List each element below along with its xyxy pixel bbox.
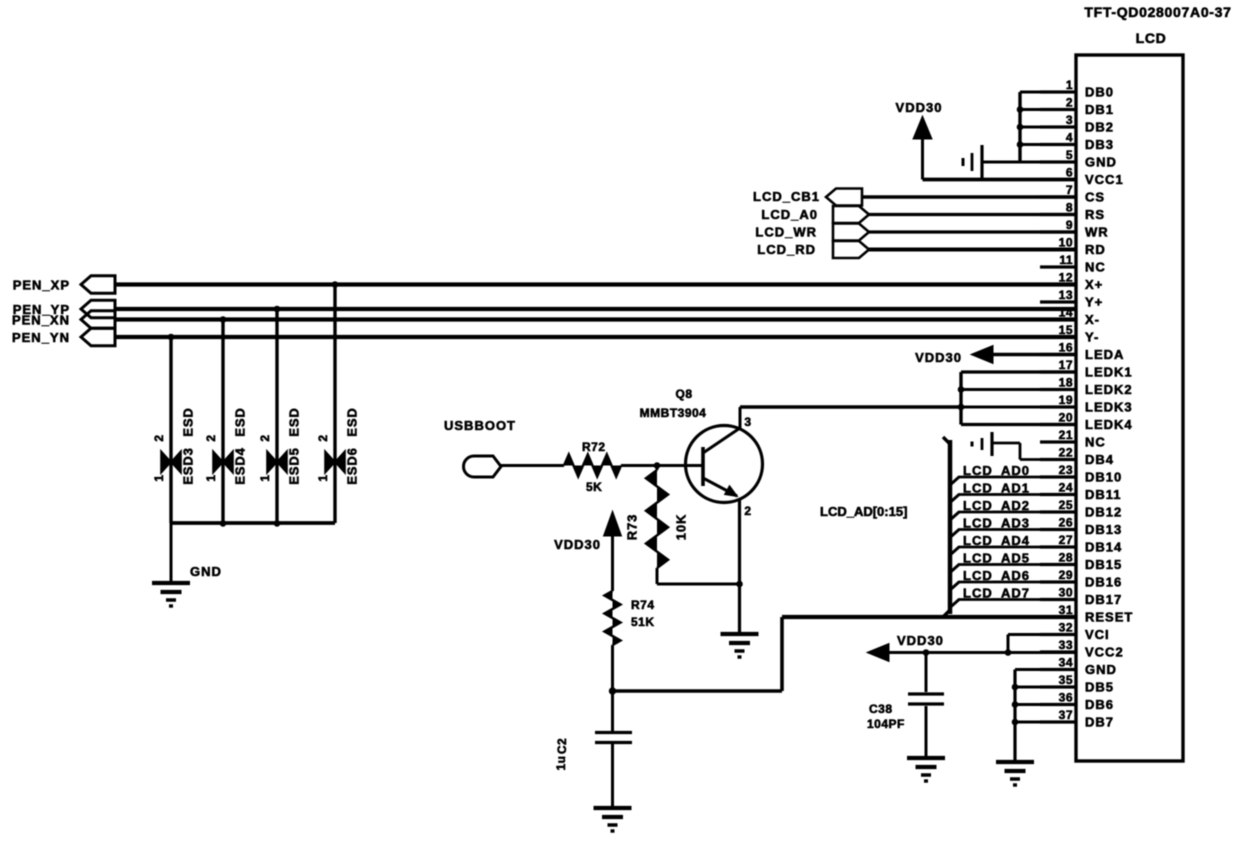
ground C2 [594,808,632,831]
svg-text:ESD: ESD [180,407,195,436]
pin 16 LEDA stub and labels [1040,341,1124,363]
svg-text:DB17: DB17 [1085,592,1122,607]
svg-text:LCD_AD[0:15]: LCD_AD[0:15] [820,504,907,519]
pin 10 RD stub and labels [1040,236,1106,258]
svg-text:Q8: Q8 [675,387,692,401]
svg-text:2: 2 [316,434,330,441]
svg-text:1: 1 [258,474,272,481]
pin 15 Y- stub and labels [1040,323,1099,345]
svg-text:33: 33 [1059,638,1073,652]
pin 4 DB3 stub and labels [1040,131,1114,153]
svg-text:25: 25 [1059,498,1073,512]
svg-text:NC: NC [1085,260,1106,275]
pin 25 DB12 stub and labels [1040,498,1122,520]
pin 33 VCC2 stub and labels [1040,638,1124,660]
power VDD30 arrow above R74 [554,511,621,591]
svg-text:1: 1 [204,474,218,481]
svg-text:1: 1 [152,474,166,481]
svg-text:RESET: RESET [1085,610,1133,625]
wire ESD common bottom [171,521,335,525]
wire bottom node to RESET pin31 [613,617,1077,691]
node PEN_YP flag and wire to pin13.4 [13,300,1076,318]
svg-text:7: 7 [1066,183,1073,197]
resistor R72 5K [564,440,621,494]
wire R74 to bottom node [611,645,614,691]
svg-text:DB5: DB5 [1085,680,1114,695]
wire bus DB0-DB3 to GND pin5 vertical [1020,92,1076,162]
resistor R74 51K [605,591,655,645]
pin 32 VCI stub and labels [1040,621,1110,643]
wire down to GND [170,523,173,583]
diode ESD4 ESD suppressor [204,320,247,524]
pin 13 Y+ stub and labels [1040,288,1103,310]
node PEN_YN flag and wire to pin15 [12,328,1076,346]
wire R72 to Q8 base [621,464,703,467]
ground sideways near pin22 [972,432,992,456]
node LCD_WR flag to pin9 [755,224,1076,241]
svg-text:LCD: LCD [1136,30,1167,46]
svg-text:24: 24 [1059,481,1073,495]
svg-text:CS: CS [1085,190,1105,205]
junction dots on DB bus [1017,107,1023,148]
node LCD_AD5 wire to pin28 [950,551,1076,573]
node LCD_RD flag to pin10 [757,241,1076,258]
power VDD30 arrow to LEDA pin16 [915,346,1076,366]
pin 8 RS stub and labels [1040,201,1105,223]
svg-text:LEDA: LEDA [1085,347,1124,362]
pin 3 DB2 stub and labels [1040,113,1114,135]
svg-text:6: 6 [1066,166,1073,180]
wire R73 bottom to emitter [657,568,740,584]
junction bottom node [609,688,615,694]
svg-text:LCD_A0: LCD_A0 [761,207,818,222]
svg-text:DB16: DB16 [1085,575,1122,590]
svg-text:ESD4: ESD4 [232,447,247,485]
power VDD30 arrow to VCC2 pin33 [867,633,1076,662]
node USBBOOT tag [444,418,516,477]
svg-text:Y-: Y- [1085,330,1099,345]
svg-text:1u: 1u [554,755,568,770]
svg-text:1: 1 [316,474,330,481]
capacitor C38 104PF [867,653,944,759]
wire branch to VCI pin32 [1008,635,1076,653]
pin 24 DB11 stub and labels [1040,481,1122,503]
svg-text:DB11: DB11 [1085,487,1122,502]
svg-text:LEDK1: LEDK1 [1085,365,1133,380]
svg-text:ESD: ESD [232,407,247,436]
wire Q8 collector up [739,407,742,428]
wire USBBOOT to R72 [501,464,564,467]
svg-text:DB12: DB12 [1085,505,1122,520]
svg-text:21: 21 [1059,428,1073,442]
svg-text:16: 16 [1059,341,1073,355]
node LCD_CB1 flag to pin7 CS [753,189,1076,206]
svg-text:R72: R72 [582,440,606,454]
pin 14 X- stub and labels [1040,306,1100,328]
pin 21 NC stub and labels [1040,428,1106,450]
ground bottom right [996,762,1034,785]
svg-text:LEDK2: LEDK2 [1085,382,1133,397]
svg-text:22: 22 [1059,446,1073,460]
junction ESD3 tap [168,334,174,340]
pin 11 NC stub and labels [1040,253,1106,275]
svg-text:PEN_XN: PEN_XN [12,313,70,328]
junction ESD6 tap [332,282,338,288]
svg-text:ESD5: ESD5 [286,447,301,485]
svg-text:TFT-QD028007A0-37: TFT-QD028007A0-37 [1084,4,1231,20]
svg-text:VCC2: VCC2 [1085,645,1124,660]
pin 6 VCC1 stub and labels [1040,166,1124,188]
junction ESD4 tap [220,317,226,323]
svg-text:20: 20 [1059,411,1073,425]
svg-text:2: 2 [204,434,218,441]
junction C38 tap [923,650,929,656]
svg-text:VDD30: VDD30 [897,633,944,648]
node PEN_XP flag and wire to pin12 [13,276,1076,294]
junction dots bottom bus [1012,684,1018,725]
svg-text:LCD_CB1: LCD_CB1 [753,189,820,204]
svg-text:LCD_AD1: LCD_AD1 [963,481,1030,496]
svg-text:X-: X- [1085,312,1100,327]
node LCD_AD2 wire to pin25 [950,498,1076,520]
svg-text:LEDK4: LEDK4 [1085,417,1133,432]
svg-text:2: 2 [152,434,166,441]
svg-text:Y+: Y+ [1085,295,1103,310]
svg-text:WR: WR [1085,225,1109,240]
svg-text:30: 30 [1059,586,1073,600]
IC LCD TFT-QD028007A0-37 body [1076,55,1183,761]
wire Q8 emitter down [738,499,741,633]
svg-text:23: 23 [1059,463,1073,477]
svg-text:VDD30: VDD30 [896,100,943,115]
svg-text:32: 32 [1059,621,1073,635]
svg-text:34: 34 [1059,656,1073,670]
svg-text:X+: X+ [1085,277,1103,292]
node LCD_AD4 wire to pin27 [950,533,1076,555]
pin 1 DB0 stub and labels [1040,78,1114,100]
svg-text:LCD_AD0: LCD_AD0 [963,463,1030,478]
svg-text:35: 35 [1059,673,1073,687]
pin 2 DB1 stub and labels [1040,96,1114,118]
svg-text:NC: NC [1085,435,1106,450]
junction dots LEDK bracket [958,387,964,410]
svg-text:9: 9 [1066,218,1073,232]
pin 12 X+ stub and labels [1040,271,1103,293]
svg-text:GND: GND [190,564,222,579]
svg-text:11: 11 [1059,253,1073,267]
svg-text:DB15: DB15 [1085,557,1122,572]
power VDD30 arrow to VCC1 pin6 [896,100,1076,180]
svg-text:2: 2 [744,504,751,518]
svg-text:5: 5 [1066,148,1073,162]
node LCD_AD3 wire to pin26 [950,516,1076,538]
pin 34 GND stub and labels [1040,656,1117,678]
svg-text:VCC1: VCC1 [1085,172,1124,187]
wire LEDK1-LEDK4 bracket [961,372,1076,425]
node PEN_XN flag and wire to pin14 [12,311,1076,329]
svg-text:DB2: DB2 [1085,120,1114,135]
pin 36 DB6 stub and labels [1040,691,1114,713]
svg-text:LCD_AD5: LCD_AD5 [963,551,1030,566]
svg-text:RD: RD [1085,242,1106,257]
svg-text:LCD_RD: LCD_RD [757,242,816,257]
svg-text:LCD_AD3: LCD_AD3 [963,516,1030,531]
svg-text:C2: C2 [555,738,569,754]
svg-text:26: 26 [1059,516,1073,530]
wire pin22 DB4 to sideways ground [992,443,1076,460]
svg-text:5K: 5K [586,480,602,494]
svg-text:MMBT3904: MMBT3904 [640,406,707,420]
svg-text:GND: GND [1085,662,1117,677]
svg-text:4: 4 [1066,131,1073,145]
svg-text:LCD_AD2: LCD_AD2 [963,498,1030,513]
pin 29 DB16 stub and labels [1040,568,1122,590]
svg-text:PEN_YN: PEN_YN [12,330,70,345]
svg-text:DB14: DB14 [1085,540,1122,555]
svg-text:8: 8 [1066,201,1073,215]
svg-text:19: 19 [1059,393,1073,407]
pin 9 WR stub and labels [1040,218,1109,240]
svg-text:R73: R73 [624,514,639,541]
svg-text:VDD30: VDD30 [915,350,962,365]
pin 27 DB14 stub and labels [1040,533,1122,555]
svg-text:VCI: VCI [1085,627,1110,642]
svg-text:1: 1 [1066,78,1073,92]
pin 22 DB4 stub and labels [1040,446,1114,468]
pin 18 LEDK2 stub and labels [1040,376,1133,398]
svg-text:13: 13 [1059,288,1073,302]
pin 19 LEDK3 stub and labels [1040,393,1133,415]
svg-text:2: 2 [258,434,272,441]
svg-text:LCD_AD6: LCD_AD6 [963,568,1030,583]
junction VCI branch [1005,650,1011,656]
svg-text:LCD_WR: LCD_WR [755,225,817,240]
node LCD_AD6 wire to pin29 [950,568,1076,590]
svg-text:3: 3 [744,415,751,429]
svg-text:R74: R74 [631,598,655,612]
pin 17 LEDK1 stub and labels [1040,358,1133,380]
svg-text:DB6: DB6 [1085,697,1114,712]
pin 7 CS stub and labels [1040,183,1105,205]
svg-text:DB0: DB0 [1085,85,1114,100]
svg-text:18: 18 [1059,376,1073,390]
svg-text:ESD3: ESD3 [180,447,195,485]
svg-text:LEDK3: LEDK3 [1085,400,1133,415]
diode ESD5 ESD suppressor [258,309,301,523]
node LCD_AD1 wire to pin24 [950,481,1076,503]
junction ESD5 tap [274,306,280,312]
svg-text:DB1: DB1 [1085,102,1114,117]
pin 37 DB7 stub and labels [1040,708,1114,730]
svg-text:C38: C38 [869,702,893,716]
junction R72/R73 [654,463,660,469]
svg-text:3: 3 [1066,113,1073,127]
svg-text:36: 36 [1059,691,1073,705]
pin 31 RESET stub and labels [1040,603,1133,625]
svg-text:ESD6: ESD6 [344,447,359,485]
ground left GND [152,583,190,606]
bus LCD_AD[0:15] vertical [943,437,950,617]
wire Q8 collector to LEDK bracket [740,405,961,409]
svg-text:DB4: DB4 [1085,452,1114,467]
svg-text:DB3: DB3 [1085,137,1114,152]
svg-text:DB10: DB10 [1085,470,1122,485]
pin 26 DB13 stub and labels [1040,516,1122,538]
capacitor C2 1u [554,691,632,808]
diode ESD3 ESD suppressor [152,337,195,523]
pin 20 LEDK4 stub and labels [1040,411,1133,433]
svg-text:27: 27 [1059,533,1073,547]
node LCD_AD0 wire to pin23 [950,463,1076,485]
wire pin5 GND to sideways ground [982,161,1020,164]
wire GND/DB5/DB6/DB7 bus to ground [1015,670,1076,763]
svg-text:DB7: DB7 [1085,715,1114,730]
svg-text:29: 29 [1059,568,1073,582]
node LCD_A0 flag to pin8 [761,206,1076,223]
pin 23 DB10 stub and labels [1040,463,1122,485]
svg-text:RS: RS [1085,207,1105,222]
junction dots on ESD bottom rail [220,521,280,527]
svg-text:37: 37 [1059,708,1073,722]
transistor Q8 MMBT3904 [640,387,763,518]
svg-text:DB13: DB13 [1085,522,1122,537]
junction R73/emitter [737,581,743,587]
svg-text:2: 2 [1066,96,1073,110]
pin 30 DB17 stub and labels [1040,586,1122,608]
pin 5 GND stub and labels [1040,148,1117,170]
svg-text:28: 28 [1059,551,1073,565]
pin 28 DB15 stub and labels [1040,551,1122,573]
svg-text:USBBOOT: USBBOOT [444,418,516,433]
svg-text:104PF: 104PF [867,717,905,731]
svg-text:VDD30: VDD30 [554,537,601,552]
pin 35 DB5 stub and labels [1040,673,1114,695]
svg-text:GND: GND [1085,155,1117,170]
svg-text:10K: 10K [673,514,688,541]
svg-text:17: 17 [1059,358,1073,372]
svg-text:LCD_AD7: LCD_AD7 [963,586,1030,601]
svg-text:ESD: ESD [286,407,301,436]
diode ESD6 ESD suppressor [316,285,359,524]
svg-text:PEN_XP: PEN_XP [13,278,70,293]
node LCD_AD7 wire to pin30 [950,586,1076,608]
resistor R73 10K [624,466,688,569]
svg-text:LCD_AD4: LCD_AD4 [963,533,1030,548]
svg-text:51K: 51K [631,615,655,629]
svg-text:10: 10 [1059,236,1073,250]
ground Q8 emitter [721,634,759,657]
ground C38 [907,758,945,781]
ground sideways near pin5 [963,145,982,179]
svg-text:ESD: ESD [344,407,359,436]
